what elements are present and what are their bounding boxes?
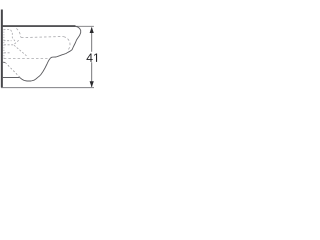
hidden outlet diagonal xyxy=(5,63,20,78)
pan back lower stub xyxy=(3,61,5,63)
hidden bowl back xyxy=(16,28,21,37)
hidden sump line xyxy=(4,58,48,60)
hidden channel top xyxy=(4,30,15,41)
pan top line xyxy=(3,25,76,27)
arrow up xyxy=(90,27,94,33)
wall xyxy=(1,10,3,88)
extension line xyxy=(76,25,94,27)
pan bottom back edge xyxy=(3,77,20,79)
hidden pipe mid xyxy=(4,52,11,54)
hidden rim line xyxy=(21,37,64,38)
hidden channel bottom xyxy=(4,40,12,42)
hidden channel vertical dotted xyxy=(3,29,5,59)
hidden pipe diagonal xyxy=(14,45,27,56)
hidden bowl front xyxy=(64,37,71,51)
hidden pipe top xyxy=(4,40,20,45)
arrow down xyxy=(90,81,94,87)
dimension text 41 xyxy=(86,53,97,61)
pan outline front and underside xyxy=(20,26,81,81)
floor line xyxy=(1,87,94,89)
dimension line xyxy=(91,28,93,88)
